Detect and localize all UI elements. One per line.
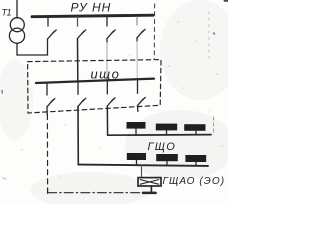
wire: column 2 from switch to ИЩО bus — [77, 39, 79, 82]
box: group panel 1.3 — [184, 124, 205, 135]
wire: incoming feed to transformer — [16, 0, 18, 18]
wire: column A leaves panel, becomes dashed outgoing line — [46, 107, 48, 115]
switch S1 under bus — [47, 84, 55, 107]
box: group panel 2.3 — [185, 155, 206, 166]
paper speckles — [21, 21, 222, 192]
wire: column 4 stub below panel — [137, 106, 139, 112]
wire: column 3 down to group line 1 — [106, 106, 108, 135]
box: group panel 1.1 — [127, 122, 146, 135]
wire: group line 1 (ГЩО row 1) — [108, 134, 211, 137]
box: group panel 1.2 — [156, 124, 177, 135]
switch Q3 on busbar — [107, 17, 115, 39]
wire: drop to emergency lighting box — [141, 165, 143, 177]
box: group panel 2.2 — [156, 154, 178, 166]
switch S4 under bus — [138, 80, 146, 106]
faint scan haze — [0, 0, 240, 208]
box: ГЩАО emergency lighting panel with cross — [138, 178, 161, 186]
transformer T1 — [10, 18, 24, 32]
wire: transformer to switch column 1 — [17, 39, 48, 55]
svg-text:ГЩО: ГЩО — [148, 141, 177, 153]
wire: column 3 faint — [106, 39, 108, 43]
wire: dash-dot line to pedestal foot — [48, 192, 143, 194]
pedestal stand — [143, 186, 156, 193]
wire: group line 2 (ГЩО row 2) — [78, 165, 208, 166]
switch S2 under bus — [78, 81, 86, 106]
svg-text:ищо: ищо — [91, 67, 121, 82]
busbar РУ НН — [32, 15, 153, 17]
wire: column 2 down to group line 2 — [77, 106, 79, 164]
wire: column 4 faint — [136, 38, 138, 42]
scan artifact marks — [213, 117, 215, 135]
dashed separator right of busbar — [153, 4, 155, 59]
switch S3 under bus — [107, 81, 115, 107]
svg-text:ГЩАО (ЭО): ГЩАО (ЭО) — [163, 176, 226, 187]
switch Q4 on busbar — [137, 17, 145, 38]
switch Q2 on busbar — [78, 17, 86, 39]
dashed panel boundary ИЩО — [28, 60, 161, 113]
svg-text:РУ НН: РУ НН — [71, 1, 112, 15]
switch Q1 on busbar — [48, 17, 56, 39]
box: group panel 2.1 — [127, 153, 146, 165]
bus ИЩО — [36, 79, 154, 83]
svg-text:Т1: Т1 — [2, 8, 12, 18]
